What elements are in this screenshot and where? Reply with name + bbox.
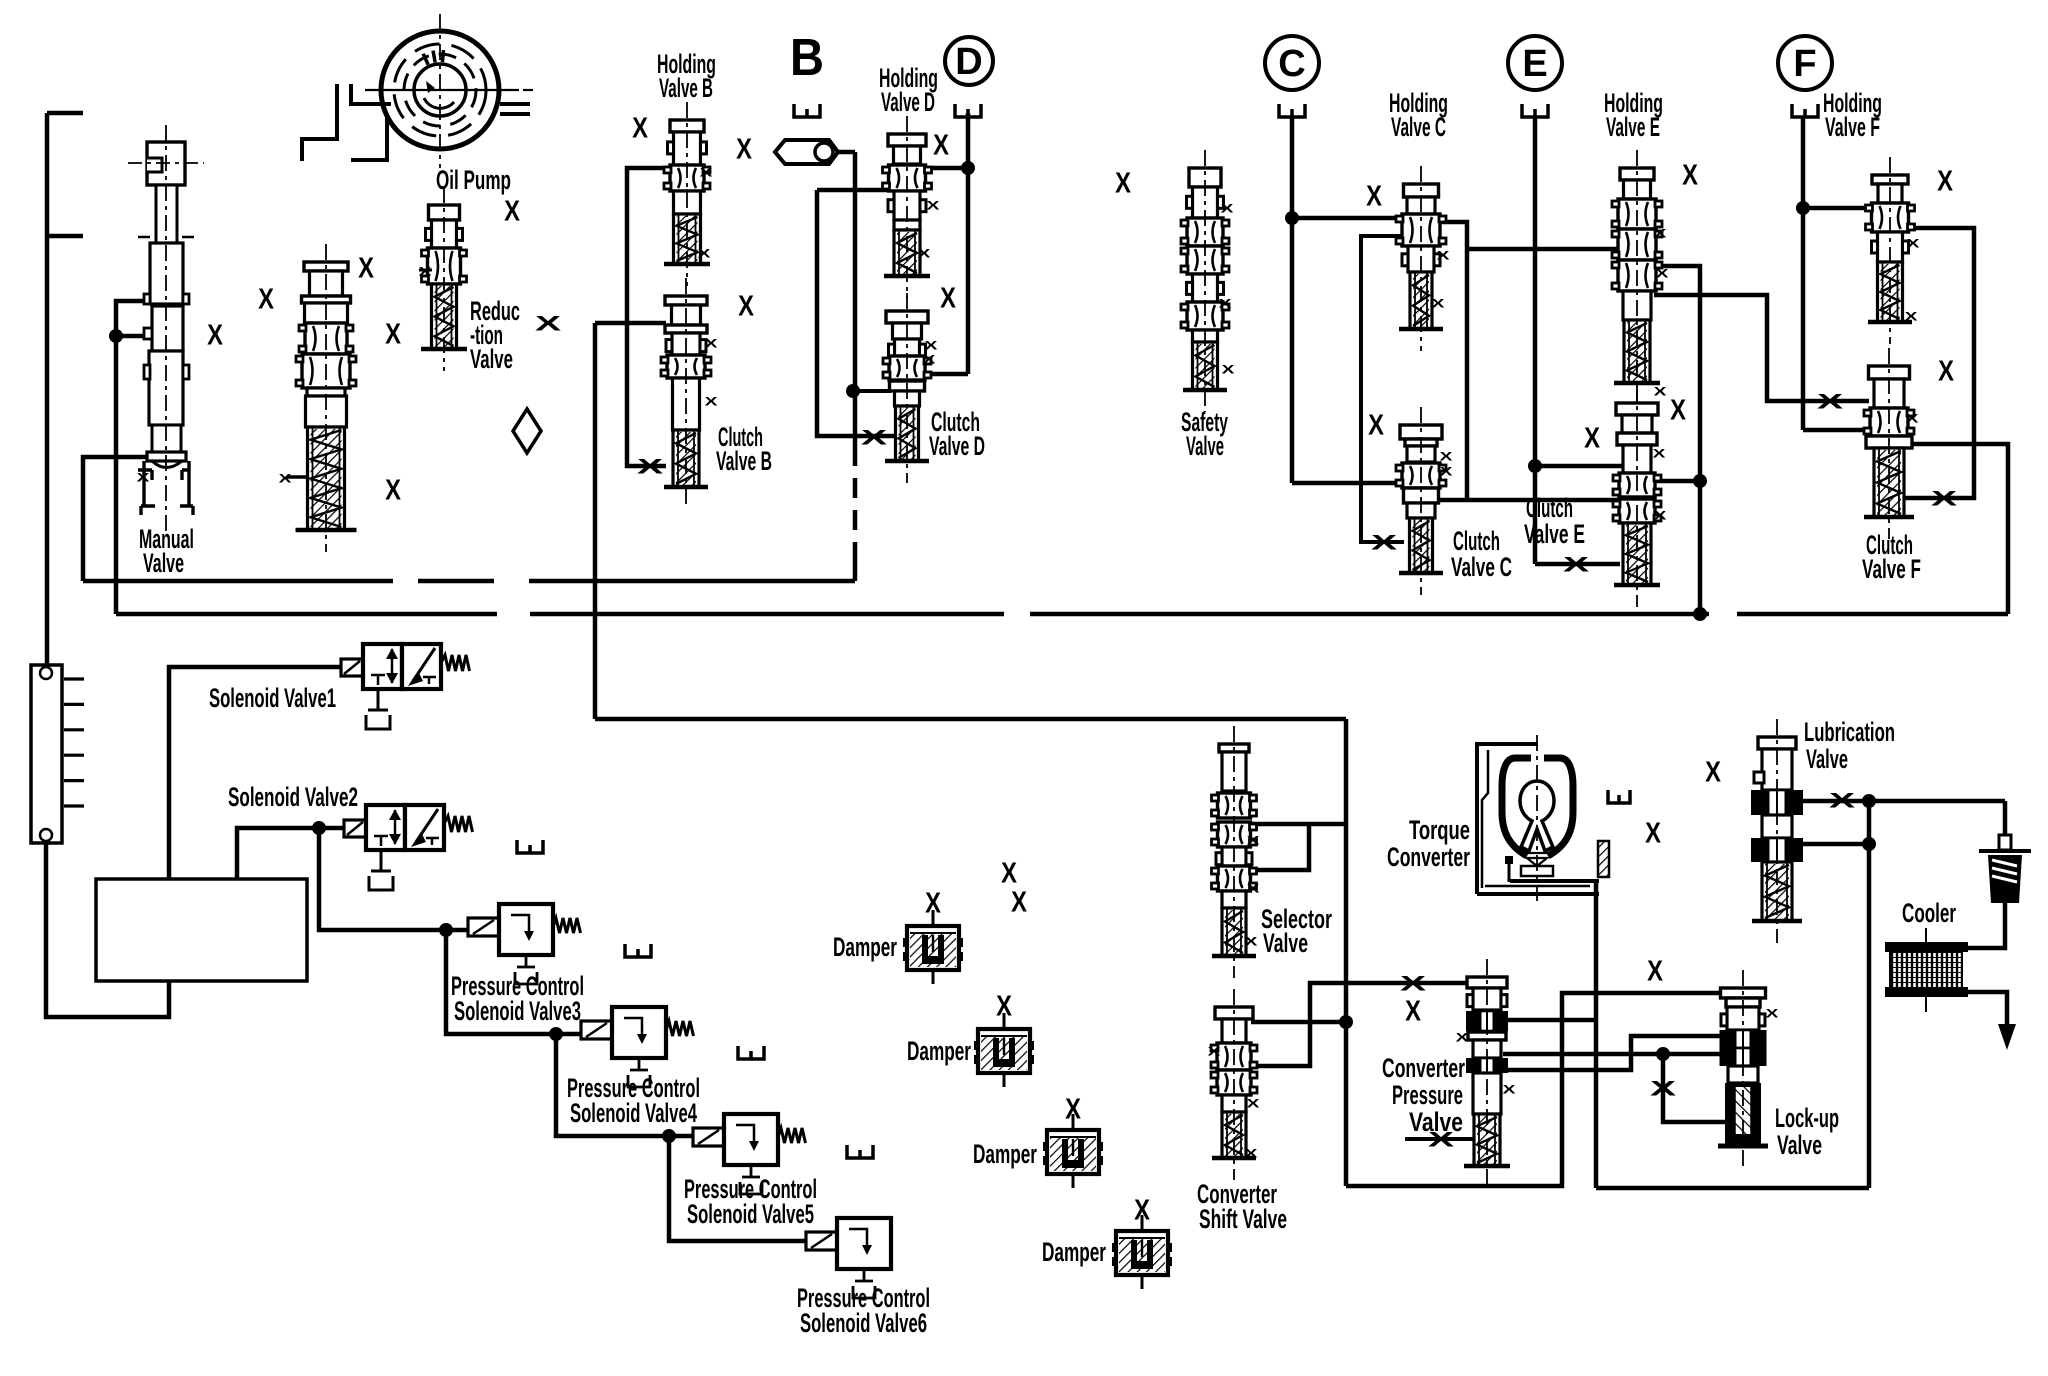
- svg-text:Damper: Damper: [907, 1036, 971, 1066]
- svg-text:X: X: [738, 289, 754, 322]
- svg-text:Valve C: Valve C: [1391, 112, 1446, 142]
- svg-text:X: X: [1647, 954, 1663, 987]
- svg-text:X: X: [1656, 268, 1669, 280]
- svg-text:X: X: [1931, 487, 1957, 510]
- svg-text:X: X: [1670, 393, 1686, 426]
- svg-text:Cooler: Cooler: [1902, 898, 1956, 928]
- svg-text:X: X: [923, 354, 936, 366]
- svg-text:X: X: [1766, 1008, 1779, 1020]
- svg-text:X: X: [705, 396, 718, 408]
- svg-text:Valve F: Valve F: [1862, 554, 1921, 584]
- svg-text:B: B: [790, 29, 824, 87]
- svg-text:X: X: [1245, 1148, 1258, 1160]
- svg-text:X: X: [1400, 972, 1426, 995]
- svg-text:Converter: Converter: [1387, 842, 1470, 872]
- svg-text:X: X: [1405, 994, 1421, 1027]
- svg-text:X: X: [137, 472, 150, 484]
- svg-text:X: X: [1440, 466, 1453, 478]
- svg-text:X: X: [385, 473, 401, 506]
- svg-text:Pressure: Pressure: [1392, 1080, 1463, 1110]
- svg-text:X: X: [279, 473, 292, 485]
- svg-text:X: X: [1653, 448, 1666, 460]
- svg-text:X: X: [698, 248, 711, 260]
- svg-text:X: X: [1440, 451, 1453, 463]
- svg-text:X: X: [925, 340, 938, 352]
- svg-text:X: X: [1503, 1084, 1516, 1096]
- svg-text:X: X: [1208, 1046, 1221, 1058]
- svg-text:X: X: [1563, 553, 1589, 576]
- svg-text:X: X: [918, 248, 931, 260]
- svg-text:X: X: [1011, 885, 1027, 918]
- svg-text:X: X: [1654, 386, 1667, 398]
- svg-text:D: D: [955, 41, 982, 83]
- svg-text:Valve: Valve: [1409, 1107, 1463, 1137]
- svg-text:X: X: [1938, 354, 1954, 387]
- svg-text:X: X: [1906, 413, 1919, 425]
- svg-text:Lubrication: Lubrication: [1804, 717, 1895, 747]
- svg-text:X: X: [1245, 936, 1258, 948]
- svg-text:Valve: Valve: [1806, 744, 1848, 774]
- svg-text:X: X: [1705, 755, 1721, 788]
- svg-text:X: X: [1371, 531, 1397, 554]
- svg-text:X: X: [1366, 179, 1382, 212]
- svg-text:X: X: [1654, 228, 1667, 240]
- svg-text:X: X: [258, 282, 274, 315]
- svg-text:X: X: [1134, 1193, 1150, 1226]
- svg-text:Valve E: Valve E: [1524, 519, 1585, 549]
- svg-text:Solenoid Valve1: Solenoid Valve1: [209, 683, 336, 713]
- svg-text:F: F: [1793, 43, 1816, 85]
- svg-text:X: X: [1650, 1077, 1676, 1100]
- svg-text:Valve F: Valve F: [1825, 112, 1880, 142]
- svg-text:X: X: [1907, 238, 1920, 250]
- svg-text:Valve D: Valve D: [929, 431, 985, 461]
- svg-text:X: X: [705, 338, 718, 350]
- svg-text:Solenoid Valve3: Solenoid Valve3: [454, 996, 581, 1026]
- svg-text:X: X: [504, 194, 520, 227]
- svg-text:Oil Pump: Oil Pump: [436, 165, 511, 195]
- svg-text:C: C: [1278, 43, 1305, 85]
- svg-text:X: X: [933, 128, 949, 161]
- svg-text:X: X: [736, 132, 752, 165]
- svg-text:X: X: [419, 266, 432, 278]
- svg-text:X: X: [207, 318, 223, 351]
- svg-text:X: X: [1219, 298, 1232, 310]
- svg-text:X: X: [1437, 250, 1450, 262]
- svg-text:X: X: [1645, 816, 1661, 849]
- svg-text:Solenoid Valve4: Solenoid Valve4: [570, 1098, 697, 1128]
- svg-text:X: X: [940, 281, 956, 314]
- svg-text:X: X: [358, 251, 374, 284]
- svg-text:Valve C: Valve C: [1451, 552, 1512, 582]
- svg-text:X: X: [925, 886, 941, 919]
- svg-text:X: X: [1682, 158, 1698, 191]
- svg-text:X: X: [1432, 298, 1445, 310]
- svg-text:Solenoid Valve6: Solenoid Valve6: [800, 1308, 927, 1338]
- svg-text:Torque: Torque: [1409, 815, 1470, 845]
- svg-text:X: X: [1221, 203, 1234, 215]
- svg-text:X: X: [1817, 390, 1843, 413]
- svg-text:X: X: [1247, 883, 1260, 895]
- svg-text:X: X: [1368, 408, 1384, 441]
- svg-text:X: X: [632, 111, 648, 144]
- svg-text:X: X: [1654, 510, 1667, 522]
- svg-text:Valve: Valve: [1186, 431, 1224, 461]
- svg-text:Solenoid Valve5: Solenoid Valve5: [687, 1199, 814, 1229]
- svg-text:X: X: [385, 317, 401, 350]
- svg-text:X: X: [1065, 1092, 1081, 1125]
- svg-text:X: X: [1584, 421, 1600, 454]
- svg-text:X: X: [927, 200, 940, 212]
- svg-text:X: X: [535, 312, 561, 335]
- svg-text:X: X: [1247, 835, 1260, 847]
- svg-text:E: E: [1522, 43, 1547, 85]
- svg-text:X: X: [637, 455, 663, 478]
- svg-text:Valve: Valve: [470, 344, 513, 374]
- svg-text:Valve D: Valve D: [881, 87, 935, 117]
- svg-text:Shift Valve: Shift Valve: [1199, 1204, 1287, 1234]
- svg-text:X: X: [700, 167, 713, 179]
- svg-text:Valve: Valve: [143, 548, 184, 578]
- svg-text:Damper: Damper: [973, 1139, 1037, 1169]
- svg-text:X: X: [1456, 1032, 1469, 1044]
- svg-text:Converter: Converter: [1382, 1053, 1465, 1083]
- svg-text:Solenoid Valve2: Solenoid Valve2: [228, 782, 358, 812]
- svg-text:X: X: [996, 989, 1012, 1022]
- svg-text:X: X: [1001, 856, 1017, 889]
- svg-text:X: X: [1937, 164, 1953, 197]
- svg-text:Damper: Damper: [1042, 1237, 1106, 1267]
- svg-text:X: X: [1115, 166, 1131, 199]
- svg-text:X: X: [1905, 311, 1918, 323]
- svg-text:X: X: [1247, 1098, 1260, 1110]
- svg-text:Valve: Valve: [1263, 928, 1308, 958]
- svg-text:Damper: Damper: [833, 932, 897, 962]
- svg-text:X: X: [1829, 789, 1855, 812]
- svg-text:X: X: [861, 426, 887, 449]
- svg-text:Lock-up: Lock-up: [1775, 1103, 1839, 1133]
- svg-text:Valve E: Valve E: [1606, 112, 1660, 142]
- svg-text:Valve: Valve: [1777, 1130, 1822, 1160]
- svg-text:Valve B: Valve B: [659, 73, 713, 103]
- svg-text:X: X: [1222, 364, 1235, 376]
- svg-text:Valve B: Valve B: [716, 446, 772, 476]
